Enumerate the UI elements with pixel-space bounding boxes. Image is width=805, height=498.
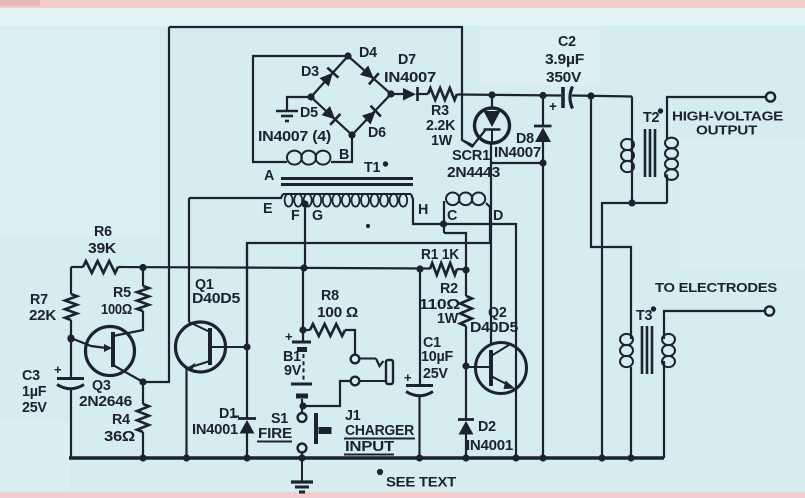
- svg-text:R2: R2: [440, 281, 458, 297]
- label FIRE: [257, 426, 292, 442]
- wire C1 to ground bus: [418, 395, 420, 458]
- diode D7: [403, 87, 418, 101]
- T2 secondary bottom: [666, 175, 668, 204]
- T3 secondary coil: [662, 334, 675, 367]
- svg-text:H: H: [418, 202, 428, 218]
- svg-text:Q3: Q3: [92, 378, 111, 394]
- label B1: [283, 349, 301, 365]
- resistor R2: [460, 296, 472, 326]
- svg-text:100Ω: 100Ω: [101, 302, 132, 318]
- T2 primary bottom wire: [631, 139, 633, 203]
- transistor Q1 circle: [176, 322, 226, 372]
- wire E lead: [189, 194, 283, 198]
- wire bridge box top-left: [253, 56, 348, 162]
- label 25V (C3): [22, 400, 47, 416]
- wire V+ rail left corner: [71, 266, 83, 268]
- label D1: [219, 406, 239, 422]
- wire S1 to ground bus: [301, 452, 303, 458]
- wire Q3 B1 to R4 junction: [113, 365, 146, 404]
- resistor R7: [65, 294, 77, 320]
- label G: [312, 208, 323, 224]
- label R1 1K: [421, 247, 460, 263]
- svg-text:D6: D6: [368, 125, 386, 141]
- wire gate trigger top: [169, 27, 474, 146]
- svg-text:39K: 39K: [88, 241, 117, 257]
- page border bottom strip: [0, 492, 805, 498]
- label 3.9uF: [545, 52, 585, 68]
- wire D to Q1 base (feedback): [247, 243, 490, 418]
- svg-text:T3: T3: [636, 308, 652, 324]
- svg-text:25V: 25V: [423, 366, 448, 382]
- label INPUT: [344, 439, 395, 455]
- label D5: [300, 105, 318, 121]
- svg-text:D4: D4: [359, 45, 377, 61]
- capacitor C1: [404, 370, 433, 396]
- svg-text:R3: R3: [431, 103, 449, 119]
- transistor Q2 circle: [476, 343, 527, 394]
- label T2*: [643, 109, 663, 126]
- jack J1 plug: [360, 359, 394, 385]
- wire R7 branch top: [70, 267, 72, 294]
- label IN4007 (D7): [384, 70, 436, 86]
- label 36 ohm: [104, 429, 135, 445]
- ground bus: [69, 455, 664, 461]
- svg-text:+: +: [404, 370, 412, 385]
- wire battery+ to R8: [303, 329, 310, 331]
- label D8: [516, 131, 534, 147]
- svg-text:E: E: [263, 201, 272, 217]
- svg-text:FIRE: FIRE: [258, 426, 292, 442]
- label C1: [423, 335, 441, 351]
- label D: [493, 208, 503, 224]
- wire bridge right node to D7: [391, 93, 403, 95]
- svg-text:OUTPUT: OUTPUT: [696, 123, 757, 138]
- T1 secondary winding: [283, 194, 411, 207]
- diode D1: [238, 419, 256, 459]
- svg-text:2.2K: 2.2K: [426, 118, 456, 134]
- wire R3 to C2: [457, 92, 561, 99]
- wire T3 secondary bottom to ground bus: [663, 361, 665, 458]
- svg-text:HIGH-VOLTAGE: HIGH-VOLTAGE: [672, 109, 784, 124]
- wire R1 left to C1: [419, 269, 421, 385]
- wire F tap: [302, 201, 308, 268]
- svg-text:C2: C2: [558, 34, 576, 50]
- capacitor C2: [549, 87, 573, 115]
- label D40D5 (Q2): [470, 320, 518, 336]
- diode D5: [322, 106, 341, 125]
- Q2 internals: [466, 345, 515, 389]
- label E: [263, 201, 272, 217]
- wire battery positive feed: [300, 268, 306, 341]
- label 2N4443: [447, 165, 500, 181]
- svg-text:350V: 350V: [546, 70, 582, 86]
- svg-text:IN4007 (4): IN4007 (4): [258, 129, 332, 145]
- SCR1 gate: [462, 131, 485, 147]
- diode D3: [320, 68, 339, 87]
- resistor R4: [137, 404, 149, 432]
- label IN4007 (D8): [494, 145, 541, 161]
- svg-text:R4: R4: [112, 412, 130, 428]
- T1 core: [281, 179, 413, 185]
- label D7: [398, 52, 416, 68]
- svg-text:A: A: [264, 168, 274, 184]
- switch S1: [298, 413, 332, 452]
- wire T3 primary to ground bus: [630, 367, 632, 458]
- svg-text:F: F: [291, 208, 300, 224]
- label 100 ohm (R5): [101, 302, 132, 318]
- svg-text:J1: J1: [345, 408, 361, 424]
- label 1W (R2): [437, 311, 459, 327]
- wire SCR cathode to D8 line: [491, 143, 546, 166]
- label HIGH-VOLTAGE: [672, 109, 784, 124]
- label Q3: [92, 378, 111, 394]
- SCR1 circle: [475, 108, 510, 143]
- resistor R1: [417, 263, 469, 275]
- diode D8: [534, 96, 552, 459]
- svg-text:D1: D1: [219, 406, 237, 422]
- svg-text:+: +: [549, 99, 557, 114]
- wire R5 to Q3: [142, 311, 144, 331]
- label CHARGER: [344, 423, 415, 439]
- wire Q2 base to D2: [465, 366, 467, 419]
- wire battery to S1: [301, 399, 303, 413]
- wire jack sleeve to battery negative: [300, 381, 351, 409]
- label B: [339, 147, 349, 163]
- wire R1 right stub: [457, 268, 466, 271]
- svg-text:B: B: [339, 147, 349, 163]
- T3 core: [642, 326, 652, 374]
- svg-text:IN4001: IN4001: [192, 422, 238, 438]
- label H: [418, 202, 428, 218]
- svg-text:C: C: [447, 208, 457, 224]
- wire E to Q1 collector: [188, 198, 190, 322]
- label IN4001 (D2): [466, 438, 513, 454]
- winding C-D: [444, 193, 490, 244]
- label R7: [30, 292, 48, 308]
- label R4: [112, 412, 130, 428]
- wire T2 bottom to ground bus: [602, 200, 667, 458]
- label Q1: [195, 277, 214, 293]
- label J1: [345, 408, 361, 424]
- resistor R5: [137, 286, 149, 311]
- svg-text:R5: R5: [113, 285, 131, 301]
- label SEE TEXT: [377, 469, 457, 489]
- Q1 internals: [186, 322, 247, 371]
- svg-text:C3: C3: [22, 368, 40, 384]
- wire H-C junction to ground bus: [444, 224, 516, 458]
- label 100 ohm (R8): [317, 305, 358, 321]
- svg-text:SCR1: SCR1: [452, 148, 490, 164]
- resistor R3: [428, 88, 457, 100]
- label T3*: [636, 307, 656, 324]
- wire C2 to T2: [572, 93, 632, 99]
- wire Q1 emitter to ground bus: [185, 367, 187, 458]
- wire R2 to Q2 base: [463, 326, 469, 369]
- label 2N2646: [79, 394, 132, 410]
- label D40D5 (Q1): [192, 291, 240, 307]
- label IN4007 (4): [258, 129, 332, 145]
- svg-text:G: G: [312, 208, 323, 224]
- T2 secondary top wire to output: [667, 97, 766, 139]
- SCR1 anode lead: [491, 95, 493, 108]
- svg-text:R8: R8: [321, 288, 339, 304]
- svg-text:+: +: [285, 329, 293, 344]
- wire Q1 base vertical: [244, 243, 250, 350]
- label 22K: [29, 308, 57, 324]
- diode D6: [362, 106, 381, 125]
- svg-text:R7: R7: [30, 292, 48, 308]
- label A: [264, 168, 274, 184]
- capacitor C3: [54, 362, 84, 389]
- wire gate trigger left / to R4 top: [143, 27, 169, 382]
- label R3: [431, 103, 449, 119]
- label D2: [478, 419, 496, 435]
- jack J1 tip terminal: [351, 355, 360, 364]
- svg-text:25V: 25V: [22, 400, 47, 416]
- label S1: [271, 411, 288, 427]
- svg-text:T2: T2: [643, 110, 659, 126]
- wire bridge diamond: [308, 53, 394, 138]
- label 2.2K: [426, 118, 456, 134]
- diode D4: [360, 66, 379, 85]
- label 1uF (C3): [22, 384, 47, 400]
- svg-text:IN4007: IN4007: [384, 70, 436, 86]
- svg-text:R1 1K: R1 1K: [421, 247, 460, 263]
- resistor R2 lead: [465, 270, 467, 296]
- svg-text:D7: D7: [398, 52, 416, 68]
- wire top to T2 primary: [631, 97, 633, 140]
- wire H lead: [411, 194, 443, 224]
- SCR1 symbol: [484, 111, 501, 142]
- winding A-B (T1 primary top): [253, 135, 352, 165]
- svg-text:T1: T1: [364, 160, 380, 176]
- wire R8 to jack tip: [345, 330, 355, 354]
- label SCR1: [452, 148, 490, 164]
- svg-text:CHARGER: CHARGER: [345, 423, 415, 439]
- svg-text:R6: R6: [94, 224, 112, 240]
- label TO ELECTRODES: [655, 280, 778, 295]
- ground (bridge): [276, 111, 298, 121]
- label R5: [113, 285, 131, 301]
- wire SCR cathode down to Q2 collector: [490, 163, 492, 345]
- svg-text:S1: S1: [271, 411, 288, 427]
- svg-text:10µF: 10µF: [421, 349, 454, 365]
- label 39K: [88, 241, 117, 257]
- label OUTPUT: [696, 123, 757, 138]
- label 9V: [284, 363, 302, 379]
- wire C to R1 right: [440, 221, 466, 270]
- svg-text:D40D5: D40D5: [192, 291, 240, 307]
- battery B1: [285, 329, 312, 396]
- svg-text:IN4007: IN4007: [494, 145, 541, 161]
- jack J1 sleeve terminal: [351, 377, 360, 386]
- svg-text:SEE TEXT: SEE TEXT: [386, 475, 457, 490]
- label 10uF: [421, 349, 454, 365]
- svg-text:1µF: 1µF: [22, 384, 47, 400]
- wire R7 to C3: [68, 320, 74, 378]
- T3 primary coil: [620, 334, 633, 367]
- label C: [447, 208, 457, 224]
- label Q2: [488, 305, 507, 321]
- label D6: [368, 125, 386, 141]
- Q3 internals: [68, 330, 143, 367]
- label C2: [558, 34, 576, 50]
- wire T3 secondary top to electrode terminal: [664, 311, 765, 339]
- wire C2 junction to T3 primary: [591, 96, 631, 334]
- label D3: [301, 64, 319, 80]
- svg-text:D2: D2: [478, 419, 496, 435]
- wire bridge left node to ground: [287, 97, 311, 110]
- ink speck: [366, 224, 369, 227]
- T2 core: [645, 129, 655, 177]
- label R6: [94, 224, 112, 240]
- wire C3 to ground bus: [70, 388, 72, 458]
- svg-text:22K: 22K: [29, 308, 57, 324]
- page border top strip: [0, 0, 805, 8]
- ground (main): [291, 458, 313, 492]
- svg-text:D40D5: D40D5: [470, 320, 518, 336]
- svg-text:D5: D5: [300, 105, 318, 121]
- svg-text:36Ω: 36Ω: [104, 429, 135, 445]
- svg-text:INPUT: INPUT: [345, 439, 395, 455]
- svg-text:D: D: [493, 208, 503, 224]
- wire D7 to R3: [416, 93, 428, 95]
- label 110 ohm: [419, 297, 460, 313]
- diode D2: [458, 420, 474, 459]
- label R8: [321, 288, 339, 304]
- svg-text:2N2646: 2N2646: [79, 394, 132, 410]
- wire V+ rail: [118, 264, 430, 271]
- T2 primary coil: [621, 139, 634, 172]
- label T1*: [364, 160, 388, 176]
- svg-text:+: +: [54, 362, 62, 377]
- label C3: [22, 368, 40, 384]
- svg-text:2N4443: 2N4443: [447, 165, 500, 181]
- label 25V (C1): [423, 366, 448, 382]
- label R2: [440, 281, 458, 297]
- label IN4001 (D1): [192, 422, 238, 438]
- label F: [291, 208, 300, 224]
- wire R4 to ground bus: [142, 432, 144, 458]
- terminal high-voltage output: [766, 92, 775, 101]
- T2 secondary coil: [665, 138, 678, 180]
- svg-text:1W: 1W: [431, 133, 453, 149]
- label 1W: [431, 133, 453, 149]
- resistor R8: [310, 324, 345, 336]
- resistor R6: [83, 261, 118, 273]
- svg-text:IN4001: IN4001: [466, 438, 513, 454]
- svg-text:9V: 9V: [284, 363, 302, 379]
- svg-text:1W: 1W: [437, 311, 459, 327]
- label 350V: [546, 70, 582, 86]
- svg-text:100 Ω: 100 Ω: [317, 305, 358, 321]
- terminal to-electrodes: [765, 306, 774, 315]
- transistor Q3 circle: [86, 327, 135, 376]
- svg-text:3.9µF: 3.9µF: [545, 52, 585, 68]
- resistor R5 lead: [142, 267, 144, 286]
- svg-text:D3: D3: [301, 64, 319, 80]
- svg-text:Q2: Q2: [488, 305, 507, 321]
- svg-text:TO ELECTRODES: TO ELECTRODES: [655, 280, 778, 295]
- label D4: [359, 45, 377, 61]
